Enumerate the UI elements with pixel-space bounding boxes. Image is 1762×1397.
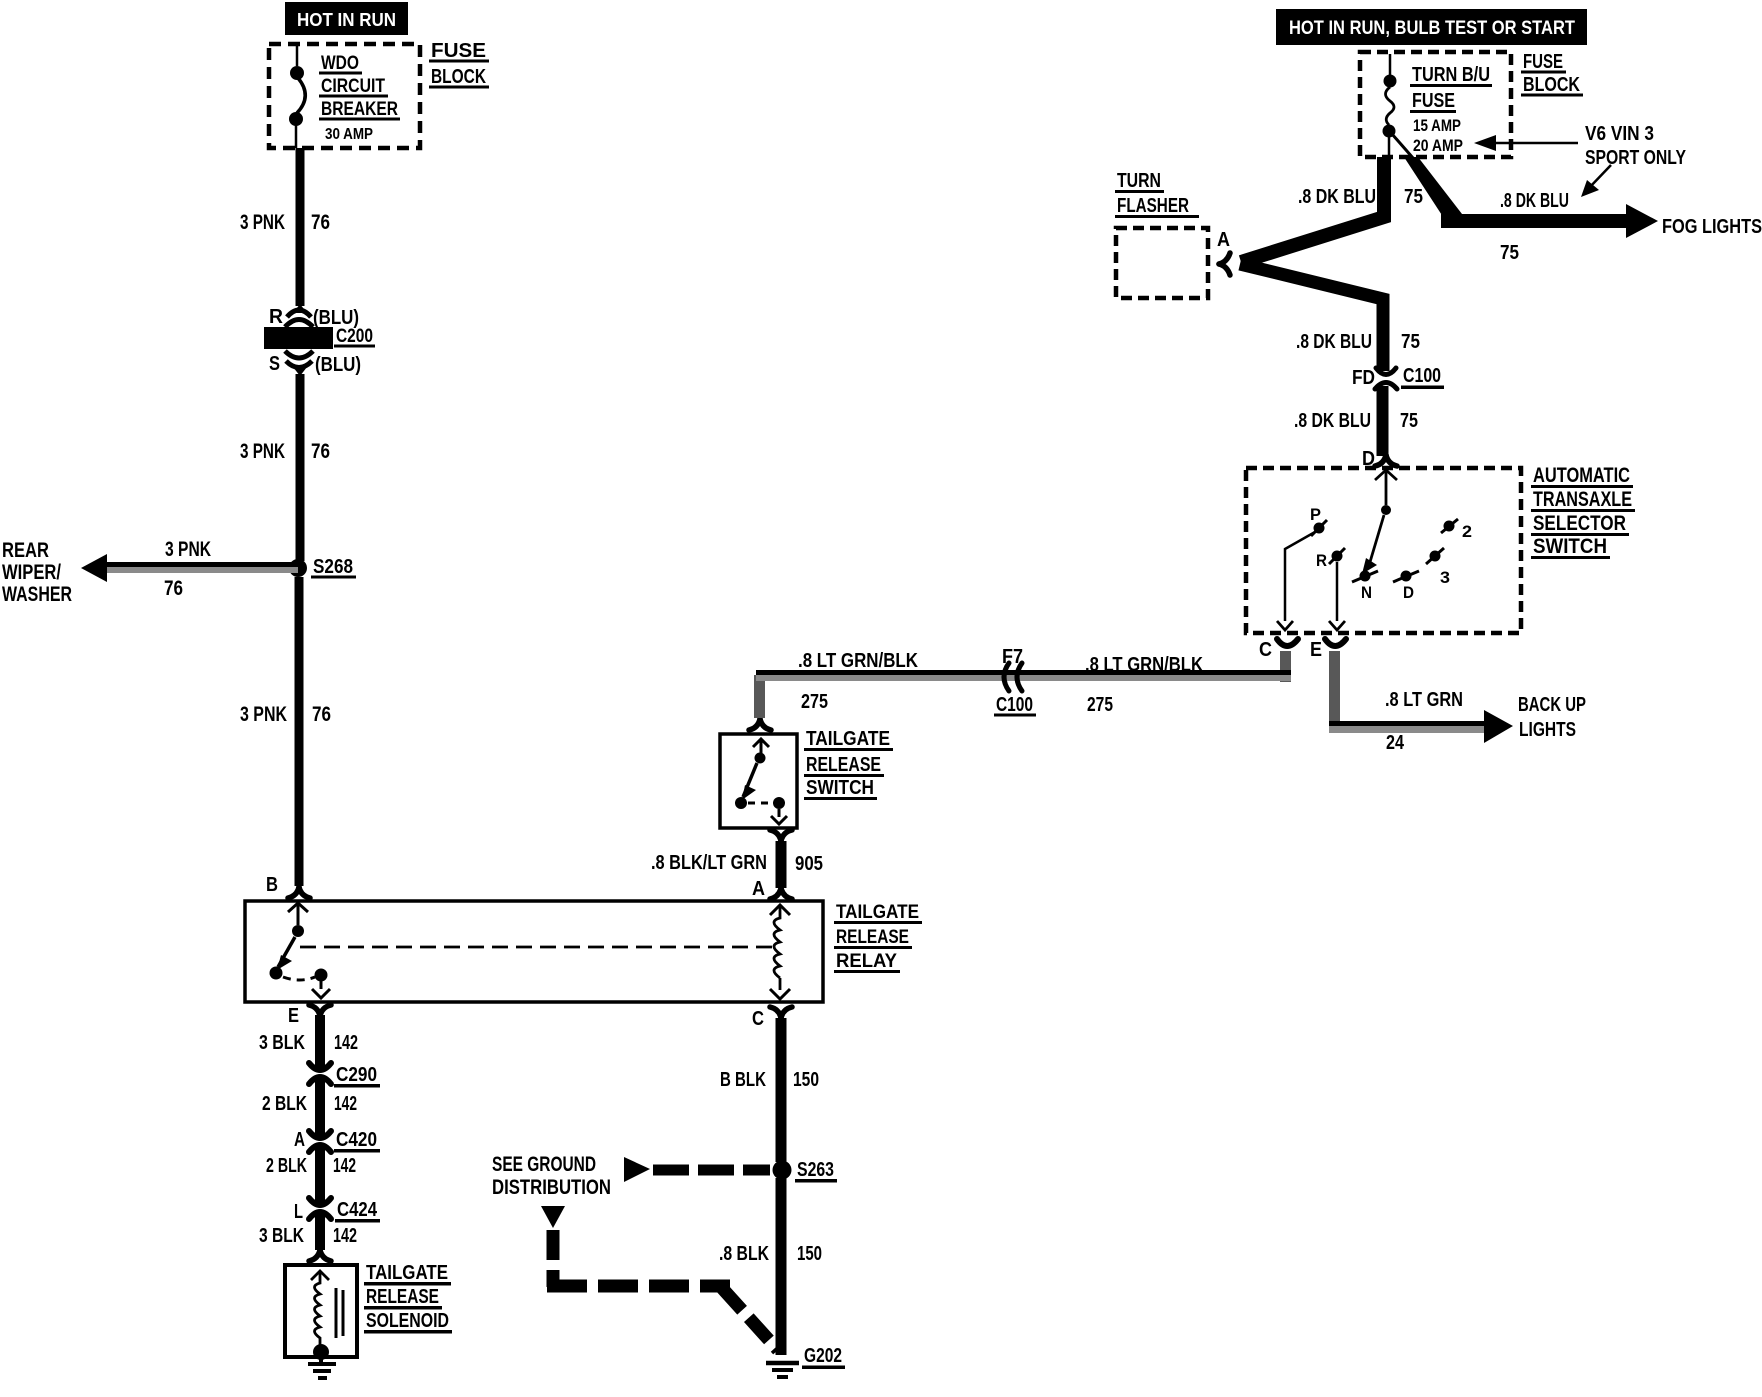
svg-text:R: R <box>1316 551 1327 570</box>
wire 3 PNK 76 (breaker to C200) <box>296 148 305 306</box>
dashed ground wire (down arrow, elbow to G202) <box>541 1206 565 1228</box>
svg-text:FLASHER: FLASHER <box>1117 195 1189 217</box>
relay actuating dashed line <box>300 946 772 949</box>
svg-text:E: E <box>288 1005 299 1027</box>
svg-text:D: D <box>1403 583 1414 602</box>
switch bottom flare <box>770 830 792 841</box>
svg-text:2 BLK: 2 BLK <box>262 1093 307 1115</box>
svg-text:WASHER: WASHER <box>2 583 72 606</box>
contact 2 <box>1441 519 1472 541</box>
svg-text:S263: S263 <box>797 1159 834 1181</box>
svg-text:FUSE: FUSE <box>1523 51 1563 73</box>
svg-text:.8 DK BLU: .8 DK BLU <box>1298 186 1376 208</box>
svg-text:142: 142 <box>333 1155 356 1177</box>
svg-text:76: 76 <box>311 211 330 234</box>
wire R to pin E <box>1329 562 1345 630</box>
svg-text:CIRCUIT: CIRCUIT <box>321 76 385 97</box>
svg-text:75: 75 <box>1500 242 1519 264</box>
svg-text:20 AMP: 20 AMP <box>1413 136 1463 155</box>
svg-text:142: 142 <box>333 1225 357 1247</box>
svg-text:C100: C100 <box>1403 365 1441 387</box>
svg-text:3 PNK: 3 PNK <box>240 211 285 234</box>
wire .8 BLK 150 (S263 to G202) <box>776 1178 787 1355</box>
text TURN B/U FUSE 15 AMP 20 AMP <box>1410 64 1492 155</box>
text TAILGATE RELEASE SOLENOID <box>364 1262 452 1334</box>
connector FD C100 <box>1375 368 1397 389</box>
svg-text:RELEASE: RELEASE <box>366 1286 439 1308</box>
solenoid coil symbol <box>311 1271 343 1345</box>
svg-text:275: 275 <box>1087 694 1113 716</box>
svg-text:TAILGATE: TAILGATE <box>806 728 890 750</box>
text BACK UP LIGHTS <box>1518 694 1586 741</box>
wire FD to D <box>1377 386 1389 456</box>
svg-text:3 BLK: 3 BLK <box>259 1032 305 1054</box>
svg-text:RELEASE: RELEASE <box>806 754 881 776</box>
svg-text:2 BLK: 2 BLK <box>266 1155 307 1177</box>
wire .8 LT GRN/BLK horizontal run <box>756 670 1291 675</box>
svg-text:.8 DK BLU: .8 DK BLU <box>1296 331 1372 353</box>
wire 3 PNK 76 (S268 to relay pin B) <box>295 577 304 886</box>
relay switch contacts (pin B side) <box>270 903 331 998</box>
svg-text:C200: C200 <box>336 326 373 347</box>
contact N <box>1352 571 1378 603</box>
svg-text:BREAKER: BREAKER <box>321 99 398 120</box>
solenoid top flare <box>309 1250 331 1261</box>
contact D <box>1393 571 1419 603</box>
text AUTOMATIC TRANSAXLE SELECTOR SWITCH <box>1531 464 1635 559</box>
svg-text:SWITCH: SWITCH <box>806 777 874 799</box>
contact 3 <box>1426 548 1450 587</box>
text REAR WIPER/WASHER <box>2 539 72 606</box>
tailgate release switch box <box>720 734 797 828</box>
svg-text:BLOCK: BLOCK <box>1523 74 1580 96</box>
svg-text:DISTRIBUTION: DISTRIBUTION <box>492 1176 611 1199</box>
svg-text:3 PNK: 3 PNK <box>165 538 211 561</box>
wire 3 BLK 142 (C424 to solenoid) <box>315 1213 325 1250</box>
svg-text:C424: C424 <box>337 1199 378 1221</box>
text TAILGATE RELEASE SWITCH <box>804 728 893 800</box>
svg-text:75: 75 <box>1404 186 1423 208</box>
svg-text:.8 LT GRN/BLK: .8 LT GRN/BLK <box>1085 654 1203 676</box>
svg-text:AUTOMATIC: AUTOMATIC <box>1533 464 1630 487</box>
svg-text:HOT IN RUN, BULB TEST OR START: HOT IN RUN, BULB TEST OR START <box>1289 18 1575 39</box>
text WDO CIRCUIT BREAKER 30 AMP <box>319 53 400 143</box>
svg-text:905: 905 <box>795 853 823 875</box>
svg-text:FOG LIGHTS: FOG LIGHTS <box>1662 216 1762 238</box>
arrow to S263 (dashed ground lead) <box>624 1157 650 1182</box>
svg-text:SWITCH: SWITCH <box>1533 535 1607 558</box>
text FUSE BLOCK (left) <box>429 40 489 89</box>
fuse TURN B/U symbol <box>1383 54 1414 158</box>
svg-text:C290: C290 <box>336 1064 377 1086</box>
tailgate switch contacts <box>735 739 787 824</box>
relay box (tailgate release relay) <box>245 901 823 1002</box>
svg-text:30 AMP: 30 AMP <box>325 126 373 143</box>
svg-text:142: 142 <box>334 1032 358 1054</box>
text FUSE BLOCK (right) <box>1521 51 1583 97</box>
svg-text:R: R <box>269 306 284 328</box>
arrow SPORT ONLY to wire <box>1581 165 1611 197</box>
wire B BLK 150 (relay C to S263) <box>776 1018 787 1162</box>
svg-text:HOT IN RUN: HOT IN RUN <box>297 10 396 30</box>
connector C200 <box>264 304 333 376</box>
svg-text:A: A <box>1217 229 1230 251</box>
svg-text:TRANSAXLE: TRANSAXLE <box>1533 488 1632 511</box>
svg-text:TURN: TURN <box>1117 170 1161 192</box>
svg-text:C100: C100 <box>996 694 1033 716</box>
svg-text:FD: FD <box>1352 367 1375 389</box>
arrow V6 VIN 3 to 20 AMP <box>1474 135 1578 151</box>
contact P <box>1310 505 1327 536</box>
ground G202 <box>766 1363 799 1377</box>
contact R <box>1316 548 1345 570</box>
svg-text:S: S <box>269 353 280 375</box>
text TAILGATE RELEASE RELAY <box>834 902 922 973</box>
text SEE GROUND DISTRIBUTION <box>492 1153 611 1199</box>
wire P to pin C <box>1277 532 1315 630</box>
svg-text:.8 DK BLU: .8 DK BLU <box>1294 410 1371 432</box>
svg-text:WIPER/: WIPER/ <box>2 561 61 584</box>
wire fuse to fog lights (diagonal+horizontal) <box>1404 157 1462 226</box>
svg-text:L: L <box>294 1201 303 1223</box>
svg-text:76: 76 <box>164 577 183 600</box>
tailgate release solenoid box <box>285 1265 357 1357</box>
text TURN FLASHER <box>1115 170 1199 218</box>
wire 3 PNK 76 (C200 to S268) <box>296 374 305 561</box>
label HOT IN RUN, BULB TEST OR START <box>1276 9 1587 45</box>
svg-text:.8 LT GRN/BLK: .8 LT GRN/BLK <box>798 650 918 672</box>
svg-text:TAILGATE: TAILGATE <box>366 1262 448 1284</box>
svg-text:C: C <box>1259 639 1272 661</box>
svg-text:BACK UP: BACK UP <box>1518 694 1586 716</box>
svg-text:15 AMP: 15 AMP <box>1413 116 1461 135</box>
wire 3 BLK 142 (relay E to C290) <box>315 1015 325 1070</box>
svg-text:B: B <box>266 874 278 896</box>
svg-text:FUSE: FUSE <box>1412 90 1455 112</box>
svg-text:LIGHTS: LIGHTS <box>1519 719 1576 741</box>
svg-text:A: A <box>294 1129 305 1151</box>
svg-text:TAILGATE: TAILGATE <box>836 902 919 923</box>
svg-text:V6 VIN 3: V6 VIN 3 <box>1585 123 1654 145</box>
turn flasher dashed box <box>1116 228 1208 298</box>
wire fuse down to turn flasher Y <box>1241 157 1384 262</box>
svg-text:G202: G202 <box>804 1345 842 1367</box>
svg-text:2: 2 <box>1462 522 1472 541</box>
svg-text:P: P <box>1310 505 1321 524</box>
svg-text:SELECTOR: SELECTOR <box>1533 512 1626 535</box>
svg-text:E: E <box>1310 639 1322 661</box>
svg-text:FUSE: FUSE <box>431 40 486 62</box>
svg-text:75: 75 <box>1401 331 1420 353</box>
label HOT IN RUN <box>285 2 408 35</box>
ground (solenoid) <box>308 1357 336 1378</box>
svg-text:A: A <box>752 878 765 900</box>
svg-text:75: 75 <box>1400 410 1418 432</box>
wire 2 BLK 142 (C420 to C424) <box>315 1146 325 1204</box>
svg-text:3: 3 <box>1440 568 1450 587</box>
wire 2 BLK 142 (C290 to C420) <box>315 1078 325 1137</box>
svg-text:BLOCK: BLOCK <box>431 66 486 88</box>
svg-text:3 PNK: 3 PNK <box>240 703 287 726</box>
fuse block dashed box (turn b/u fuse) <box>1360 52 1511 157</box>
wire to REAR WIPER/WASHER with arrow <box>100 562 298 567</box>
svg-text:REAR: REAR <box>2 539 49 562</box>
svg-text:24: 24 <box>1386 732 1405 754</box>
connector F7 C100 <box>1004 663 1022 691</box>
svg-text:SPORT ONLY: SPORT ONLY <box>1585 147 1687 169</box>
svg-text:F7: F7 <box>1002 646 1023 668</box>
svg-text:150: 150 <box>793 1069 819 1091</box>
fuse block (WDO circuit breaker) dashed box <box>269 44 420 148</box>
selector moving contact (from D) <box>1362 470 1397 574</box>
svg-text:B BLK: B BLK <box>720 1069 766 1091</box>
svg-text:.8 BLK: .8 BLK <box>719 1243 769 1265</box>
switch top flare <box>749 719 771 730</box>
svg-text:TURN B/U: TURN B/U <box>1412 64 1490 86</box>
svg-text:C: C <box>752 1008 764 1030</box>
svg-text:3 PNK: 3 PNK <box>240 440 285 463</box>
svg-text:SOLENOID: SOLENOID <box>366 1310 449 1332</box>
svg-text:C420: C420 <box>336 1129 377 1151</box>
circuit breaker WDO 30A symbol <box>289 46 305 148</box>
svg-text:.8 DK BLU: .8 DK BLU <box>1500 190 1569 212</box>
svg-text:S268: S268 <box>313 556 353 578</box>
wire .8 BLK/LT GRN 905 (switch to relay A) <box>776 841 787 888</box>
svg-text:150: 150 <box>797 1243 822 1265</box>
svg-text:.8 BLK/LT GRN: .8 BLK/LT GRN <box>651 852 767 874</box>
connector C290 <box>309 1063 331 1084</box>
svg-text:.8 LT GRN: .8 LT GRN <box>1385 689 1463 711</box>
svg-text:76: 76 <box>311 440 330 463</box>
svg-text:76: 76 <box>312 703 331 726</box>
relay coil (pin A to C) <box>770 905 790 999</box>
svg-text:(BLU): (BLU) <box>315 354 361 376</box>
wire gray C down to LT GRN/BLK run <box>1280 651 1291 682</box>
svg-text:275: 275 <box>801 691 828 713</box>
splice S268 <box>289 559 307 577</box>
svg-text:RELEASE: RELEASE <box>836 927 909 948</box>
wire gray E down and right to back up lights <box>1329 651 1340 733</box>
svg-text:N: N <box>1361 583 1372 602</box>
svg-text:SEE GROUND: SEE GROUND <box>492 1153 596 1176</box>
automatic transaxle selector switch dashed box <box>1246 468 1521 633</box>
svg-text:WDO: WDO <box>321 53 359 74</box>
svg-text:3 BLK: 3 BLK <box>259 1225 304 1247</box>
splice S263 <box>773 1161 792 1180</box>
svg-text:142: 142 <box>334 1093 357 1115</box>
text V6 VIN 3 SPORT ONLY <box>1585 123 1687 169</box>
wire gray drop into switch <box>754 675 765 718</box>
svg-text:RELAY: RELAY <box>836 951 897 972</box>
